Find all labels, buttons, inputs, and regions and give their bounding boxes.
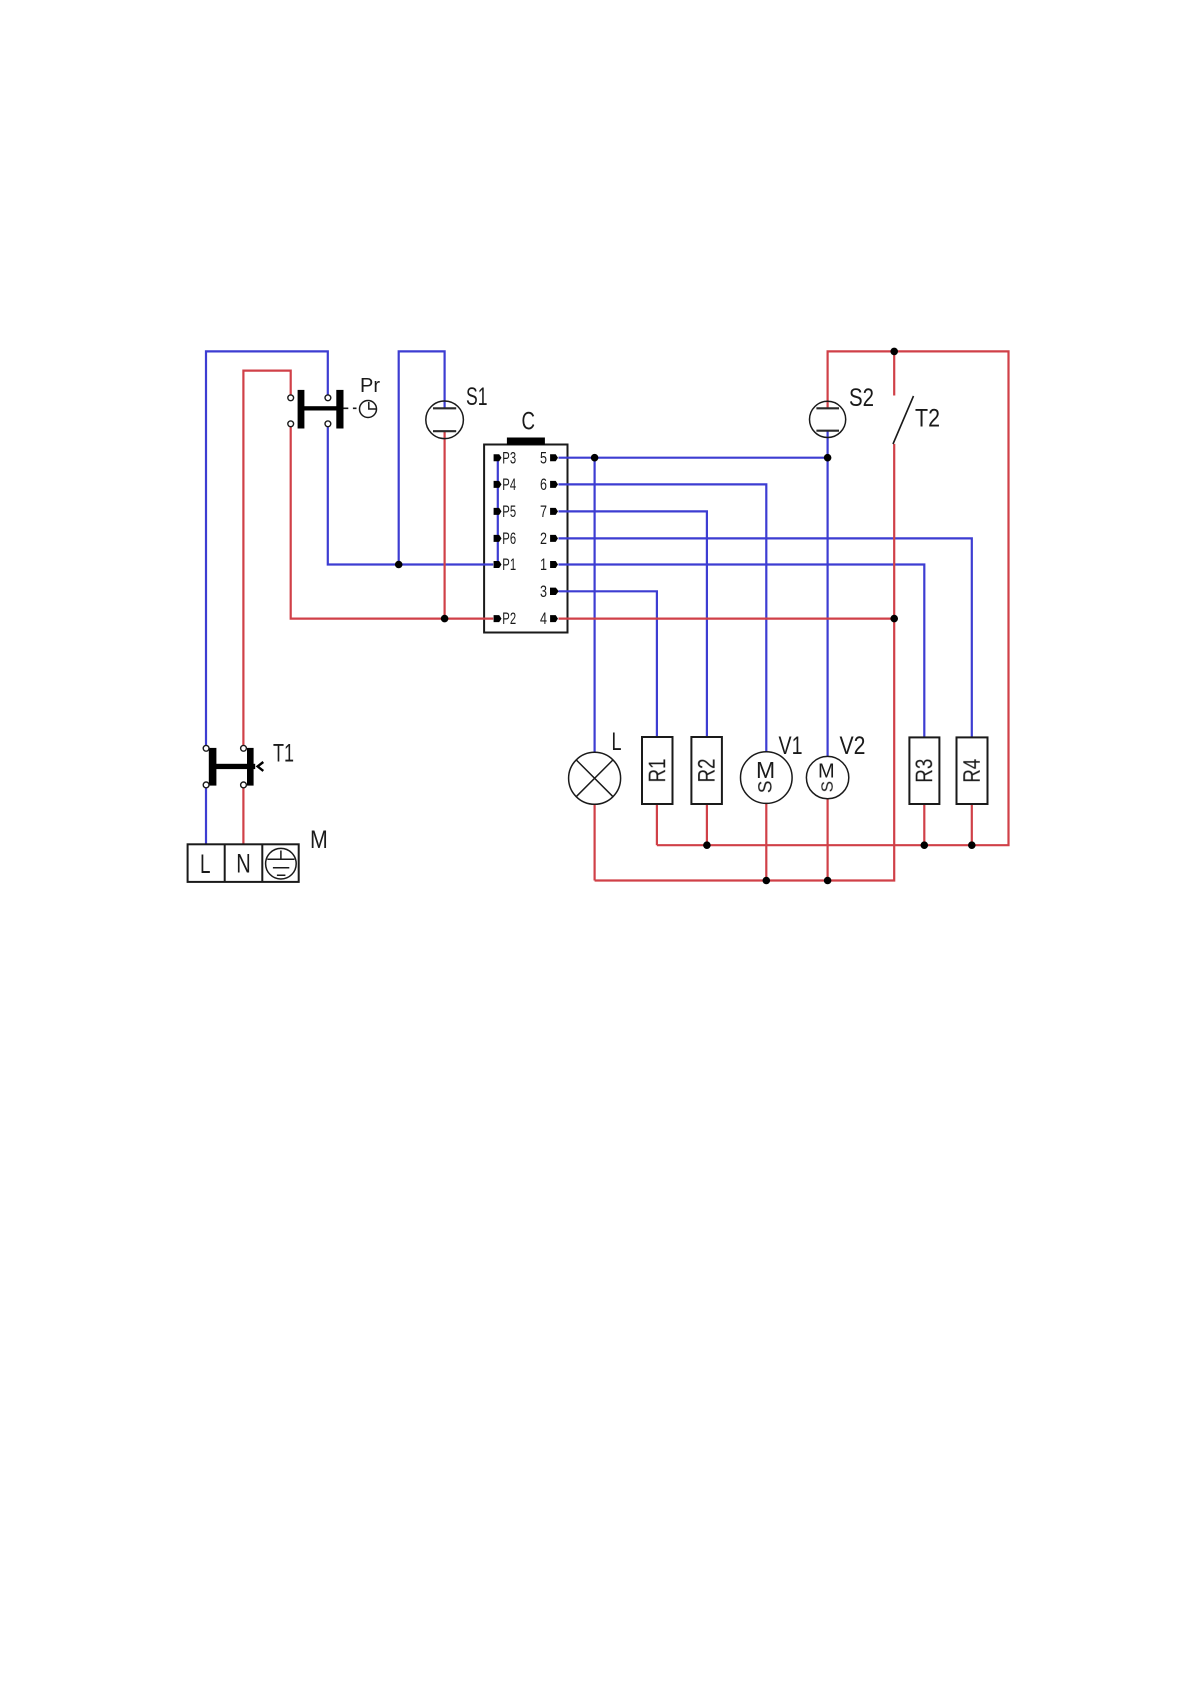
wire red R1 bottom (656, 804, 658, 845)
pin 2 (540, 529, 558, 548)
svg-text:L: L (200, 849, 211, 879)
wire red R4 bottom (971, 804, 973, 845)
svg-text:L: L (612, 728, 622, 756)
lamp L (569, 728, 622, 804)
node junction dots (395, 348, 976, 885)
wire blue pin 5 to S2 bottom junction (559, 457, 828, 459)
wire red T2 upper lead (893, 351, 895, 395)
pin P4 (494, 475, 516, 494)
wire blue pin 6 to V1 top (559, 484, 767, 751)
wire red M.N to T1 bottom-right (242, 788, 244, 844)
svg-text:M: M (310, 826, 328, 854)
svg-text:3: 3 (540, 582, 547, 601)
svg-text:M: M (818, 760, 835, 782)
pin 5 (540, 448, 558, 467)
svg-text:P4: P4 (502, 475, 516, 494)
wire red R2 bottom (706, 804, 708, 845)
svg-text:Pr: Pr (360, 375, 380, 397)
wire blue M.L to T1 bottom-left (205, 788, 207, 844)
wire red T1 top-right up and across to Pr top-left (243, 371, 290, 746)
wire blue pin 2 to R4 top (559, 538, 972, 737)
svg-text:S2: S2 (849, 384, 874, 412)
svg-text:P3: P3 (502, 448, 516, 467)
svg-text:R1: R1 (644, 759, 671, 783)
wire red lamp bottom (593, 804, 595, 880)
svg-text:R4: R4 (959, 759, 986, 783)
svg-text:6: 6 (540, 475, 547, 494)
svg-text:P2: P2 (502, 609, 516, 628)
earth symbol (266, 848, 297, 879)
pin 3 (540, 582, 559, 601)
wire blue T1 top-left up and across to Pr top-right (206, 351, 328, 745)
pin P6 (494, 529, 516, 548)
wire blue internal bus P3-P1 (497, 458, 499, 565)
controller C box body (484, 408, 567, 633)
motor V2 (806, 732, 865, 799)
wire blue Pr bottom-right to pin P1 (328, 427, 493, 565)
svg-text:4: 4 (540, 609, 547, 628)
wire blue pin 7 to R2 top (559, 511, 707, 737)
wire red T2 lower lead down to lower bus to lamp (595, 444, 895, 881)
svg-text:T1: T1 (273, 740, 294, 768)
svg-text:7: 7 (540, 502, 547, 521)
wire red S2 top across right side down to upper bus to R1 (657, 351, 1009, 845)
svg-text:C: C (522, 408, 536, 436)
pin P3 (494, 448, 516, 467)
wire red S1 bottom to P2 wire (444, 431, 446, 618)
svg-text:V2: V2 (840, 732, 866, 760)
svg-text:1: 1 (540, 555, 547, 574)
wire red V2 bottom (826, 799, 828, 881)
wire blue S2 bottom to V2 top (826, 431, 828, 757)
pin P2 (494, 609, 516, 628)
wire blue lamp branch (593, 458, 595, 753)
resistor R2 (691, 737, 722, 804)
wire red pin 4 to T2 node (559, 617, 895, 619)
pin 1 (540, 555, 558, 574)
wire red Pr bottom-left to pin P2 (291, 427, 494, 619)
svg-text:P6: P6 (502, 529, 516, 548)
pin P1 (494, 555, 516, 574)
pin 6 (540, 475, 558, 494)
svg-text:S1: S1 (466, 383, 488, 411)
svg-text:S: S (818, 781, 837, 792)
svg-text:2: 2 (540, 529, 547, 548)
svg-text:M: M (756, 757, 775, 783)
pin 4 (540, 609, 558, 628)
wire blue pin 1 to R3 top (559, 565, 925, 738)
sensor S2 (810, 384, 875, 438)
pin 7 (540, 502, 558, 521)
svg-text:P5: P5 (502, 502, 516, 521)
wire red R3 bottom (923, 804, 925, 845)
wire blue S1 top to P1 junction (399, 351, 445, 564)
resistor R4 (957, 737, 988, 804)
sensor S1 (426, 383, 488, 439)
pressure switch Pr (288, 375, 381, 429)
svg-text:5: 5 (540, 448, 547, 467)
pin P5 (494, 502, 516, 521)
svg-text:V1: V1 (779, 732, 803, 760)
switch T1 (203, 740, 294, 788)
wire blue pin 3 to R1 top (559, 591, 657, 737)
wire red V1 bottom (765, 803, 767, 880)
resistor R1 (642, 737, 673, 804)
svg-text:R2: R2 (694, 759, 721, 783)
mains terminal block M (188, 826, 328, 882)
svg-text:T2: T2 (915, 405, 940, 433)
svg-text:N: N (236, 849, 251, 879)
svg-text:P1: P1 (502, 555, 516, 574)
svg-text:S: S (756, 780, 777, 793)
svg-text:R3: R3 (911, 759, 938, 783)
motor V1 (741, 732, 803, 803)
resistor R3 (909, 737, 939, 804)
switch T2 (893, 396, 940, 444)
